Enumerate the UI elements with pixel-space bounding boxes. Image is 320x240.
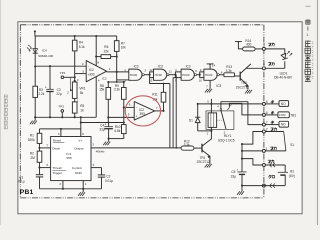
wire Control / C2 — [91, 167, 102, 169]
timer IC1 555 — [51, 137, 91, 181]
svg-text:TR2: TR2 — [241, 81, 247, 85]
svg-text:2: 2 — [266, 127, 268, 131]
svg-text:HC00: HC00 — [155, 73, 163, 77]
wire IC2b pin5 — [108, 116, 134, 118]
terminal block TB1 — [279, 101, 289, 107]
junction C3 tap — [49, 65, 51, 67]
wire pin2 to V+ node — [242, 132, 262, 145]
svg-text:40kHz: 40kHz — [96, 149, 105, 153]
svg-text:393: 393 — [140, 112, 145, 116]
svg-text:D1: D1 — [189, 118, 193, 122]
svg-text:IC2: IC2 — [102, 77, 107, 81]
page left edge — [0, 0, 2, 225]
svg-text:Disch: Disch — [52, 146, 60, 150]
battery B1 — [284, 165, 286, 172]
svg-text:Output: Output — [74, 146, 83, 150]
wire Disch — [40, 147, 51, 149]
svg-text:33µ: 33µ — [99, 128, 104, 132]
junction R4 top — [74, 35, 76, 37]
board pin 6 — [262, 113, 265, 116]
555 pin1 ground — [82, 181, 84, 193]
svg-text:14: 14 — [212, 63, 216, 67]
svg-text:HC00: HC00 — [130, 73, 138, 77]
wire Thresh — [40, 167, 51, 169]
wire battery+ to node — [242, 159, 262, 165]
svg-text:Trigger: Trigger — [52, 171, 62, 175]
wire contact3 to pin6 — [229, 103, 262, 115]
gate IC3a HC00 — [129, 69, 142, 80]
svg-text:S9648-100: S9648-100 — [38, 54, 53, 58]
gate IC3d HC00 — [204, 69, 217, 80]
svg-text:3.3k: 3.3k — [226, 69, 232, 73]
wire coil bottom pin1 — [210, 127, 212, 130]
resistor R4 — [72, 40, 77, 51]
gate IC3c HC00 — [181, 69, 194, 80]
wire pin4 to TR2 — [246, 67, 262, 69]
svg-text:2.2k: 2.2k — [38, 92, 44, 96]
svg-text:HC00: HC00 — [205, 73, 213, 77]
potentiometer VR1 — [72, 82, 77, 98]
battery pin - — [262, 184, 265, 187]
wire IC2b pin6 — [124, 106, 134, 108]
svg-text:NO: NO — [281, 123, 286, 127]
svg-text:TP1: TP1 — [60, 71, 66, 75]
svg-text:Thresh: Thresh — [52, 166, 62, 170]
wire pin3 to LED — [265, 49, 284, 54]
connector snap + — [270, 163, 275, 167]
wire pin4 to LED — [265, 67, 284, 69]
svg-text:IC3: IC3 — [158, 65, 163, 69]
capacitor C1 — [36, 174, 43, 176]
board pin 5 — [262, 102, 265, 105]
wire R4 to VR1 — [74, 51, 76, 82]
op-amp IC2a 393 — [86, 61, 106, 82]
resistor R6 — [96, 56, 101, 58]
svg-text:TP2: TP2 — [58, 104, 64, 108]
svg-text:1: 1 — [266, 147, 268, 151]
IC2a pin8 supply — [95, 36, 97, 66]
svg-text:7: 7 — [266, 121, 268, 125]
svg-text:+: + — [237, 167, 239, 171]
svg-text:10k: 10k — [121, 46, 126, 50]
wire pin1 to V+ node — [242, 150, 262, 152]
capacitor C2 — [98, 174, 105, 176]
capacitor C4 — [108, 123, 110, 127]
svg-text:15k: 15k — [99, 88, 104, 92]
svg-text:NO: NO — [281, 102, 286, 106]
capacitor C5 — [241, 144, 243, 172]
PCB dash-dot boundary PB1 — [20, 24, 264, 26]
resistor R9 — [123, 82, 125, 88]
555 output wire — [91, 147, 181, 149]
relay RLY1 — [206, 111, 234, 129]
resistor R12 — [181, 146, 194, 150]
svg-text:+: + — [45, 86, 47, 90]
IC2a pin4 ground — [95, 76, 97, 117]
resistor R10 — [122, 125, 127, 134]
V+ bar R14 — [235, 41, 242, 43]
svg-text:6.8k: 6.8k — [114, 129, 120, 133]
label ki yellow — [271, 100, 274, 103]
svg-text:820k: 820k — [28, 138, 35, 142]
top right tick — [306, 5, 311, 7]
svg-text:GND: GND — [75, 171, 83, 175]
svg-text:IC3: IC3 — [216, 84, 221, 88]
svg-text:33µ: 33µ — [231, 174, 236, 178]
svg-text:DB-40-N-BR: DB-40-N-BR — [274, 76, 292, 80]
figure frame — [18, 22, 302, 214]
switch S1 — [265, 131, 283, 133]
wire relay supply row — [198, 103, 263, 105]
ground battery return — [237, 191, 244, 195]
svg-text:IC4: IC4 — [42, 48, 47, 52]
wire R9 bottom — [123, 99, 125, 124]
svg-text:Control: Control — [72, 166, 82, 170]
svg-text:6: 6 — [266, 111, 268, 115]
svg-text:IC3: IC3 — [134, 65, 139, 69]
resistor R5 — [74, 98, 76, 102]
ground symbol — [108, 139, 110, 142]
svg-text:2M: 2M — [30, 156, 35, 160]
wire gate1 pin2 — [117, 79, 129, 81]
wire R8 R9 tops — [108, 81, 124, 83]
svg-text:3.3k: 3.3k — [184, 143, 190, 147]
svg-text:2SC2712: 2SC2712 — [236, 86, 249, 90]
divider feed — [107, 81, 109, 83]
wire R10 C4 bottoms — [109, 138, 124, 140]
op-amp IC2b 393 — [134, 102, 155, 121]
board pin 4 — [262, 67, 265, 70]
wire feedback drop — [116, 72, 118, 82]
transistor TR2 2SC2712 — [239, 72, 241, 81]
svg-text:10: 10 — [199, 78, 203, 82]
svg-text:1k: 1k — [80, 108, 84, 112]
wire gate2 pin13 hook — [150, 78, 170, 84]
svg-text:4: 4 — [263, 62, 265, 66]
svg-text:R11: R11 — [152, 93, 158, 97]
resistor R7 — [114, 41, 119, 52]
resistor R13 — [224, 73, 235, 77]
svg-text:HC00: HC00 — [182, 73, 190, 77]
node comparator out — [116, 71, 118, 73]
wire R8 bottom — [107, 99, 109, 122]
wire R3 bottom — [34, 97, 36, 117]
right margin furigana ticks — [312, 42, 314, 79]
svg-text:0.1µ: 0.1µ — [18, 180, 24, 184]
svg-text:3: 3 — [263, 43, 265, 47]
IC3 pin14 V+ — [209, 64, 211, 69]
wire contact4 to pin7 — [221, 102, 263, 125]
svg-text:−: − — [136, 105, 138, 109]
svg-text:1: 1 — [306, 33, 308, 37]
board pin 2 — [262, 130, 265, 133]
junction R6 left — [95, 56, 97, 58]
svg-text:V+: V+ — [78, 138, 82, 142]
resistor R3 — [33, 86, 38, 97]
svg-text:0.01µ: 0.01µ — [105, 179, 113, 183]
wire gates to R12 — [169, 84, 171, 148]
svg-text:22k: 22k — [104, 49, 109, 53]
svg-text:2SC2712: 2SC2712 — [197, 160, 210, 164]
resistor R2 — [37, 151, 42, 162]
resistor R14 — [243, 47, 256, 51]
svg-text:IC3: IC3 — [186, 65, 191, 69]
LED1 — [281, 53, 288, 59]
transistor TR1 2SC2712 — [201, 144, 203, 153]
left margin note — [4, 95, 7, 129]
svg-text:G5Q-1 DC5: G5Q-1 DC5 — [218, 138, 235, 142]
svg-text:555: 555 — [67, 156, 72, 160]
resistor R11 — [163, 102, 165, 111]
svg-text:5.1k: 5.1k — [79, 45, 85, 49]
gate IC3b HC00 — [154, 69, 167, 80]
svg-text:430: 430 — [246, 42, 251, 46]
resistor R8 — [107, 82, 109, 88]
ground TR2 — [245, 90, 252, 94]
capacitor C3 — [49, 66, 51, 89]
relay contact — [220, 109, 222, 111]
wire IC2a output — [107, 71, 129, 73]
connector snap - — [270, 184, 275, 188]
reset line — [40, 128, 81, 130]
ground rail — [35, 116, 97, 118]
junction pin8 column — [95, 35, 97, 37]
label aka red — [269, 43, 272, 46]
wire signal to IC2a pin2 — [35, 65, 86, 67]
node sensor output — [34, 65, 36, 67]
wire 555 V+ column — [80, 117, 82, 136]
right margin caption — [306, 20, 310, 25]
board pin 1 — [262, 149, 265, 152]
svg-text:PB1: PB1 — [20, 189, 34, 196]
svg-text:+: + — [136, 114, 138, 118]
svg-text:(6V): (6V) — [289, 174, 295, 178]
label kuro black — [269, 175, 272, 178]
ground symbol — [34, 117, 36, 120]
wire IC2a pin3 — [75, 73, 87, 75]
svg-text:C5: C5 — [231, 170, 235, 174]
svg-text:B1: B1 — [290, 170, 294, 174]
svg-text:5k: 5k — [80, 91, 84, 95]
supply filter line — [81, 122, 124, 124]
svg-text:3.3k: 3.3k — [114, 88, 120, 92]
V+ rail — [35, 35, 117, 37]
svg-text:22µ: 22µ — [56, 92, 61, 96]
svg-text:11: 11 — [169, 69, 172, 73]
board pin 3 — [262, 47, 265, 50]
node V+ entry — [34, 30, 36, 32]
svg-text:Reset: Reset — [53, 138, 61, 142]
wire gate4 out — [219, 74, 224, 76]
svg-text:S1: S1 — [290, 143, 294, 147]
svg-text:+: + — [105, 123, 107, 127]
wire coil top pin5 — [210, 99, 212, 113]
ground TR1 — [205, 164, 212, 168]
svg-text:VR1: VR1 — [79, 86, 85, 90]
IC3 pin7 ground — [209, 80, 211, 89]
wire black return / ground — [242, 185, 265, 187]
board pin 7 — [262, 123, 265, 126]
svg-text:393: 393 — [89, 72, 94, 76]
wire IC2b output — [155, 110, 164, 112]
svg-text:12: 12 — [149, 68, 153, 72]
page edge line — [316, 0, 318, 225]
svg-text:TB1: TB1 — [290, 113, 296, 117]
resistor R1 — [37, 133, 42, 143]
555 pin2 stub — [62, 181, 64, 189]
photo IC IC4 S9648-100 — [33, 49, 38, 53]
battery pin + — [262, 164, 265, 167]
annotation circle — [125, 96, 160, 126]
bottom wire — [40, 188, 102, 190]
svg-text:COM: COM — [279, 113, 286, 117]
wire sensor column — [34, 36, 36, 86]
